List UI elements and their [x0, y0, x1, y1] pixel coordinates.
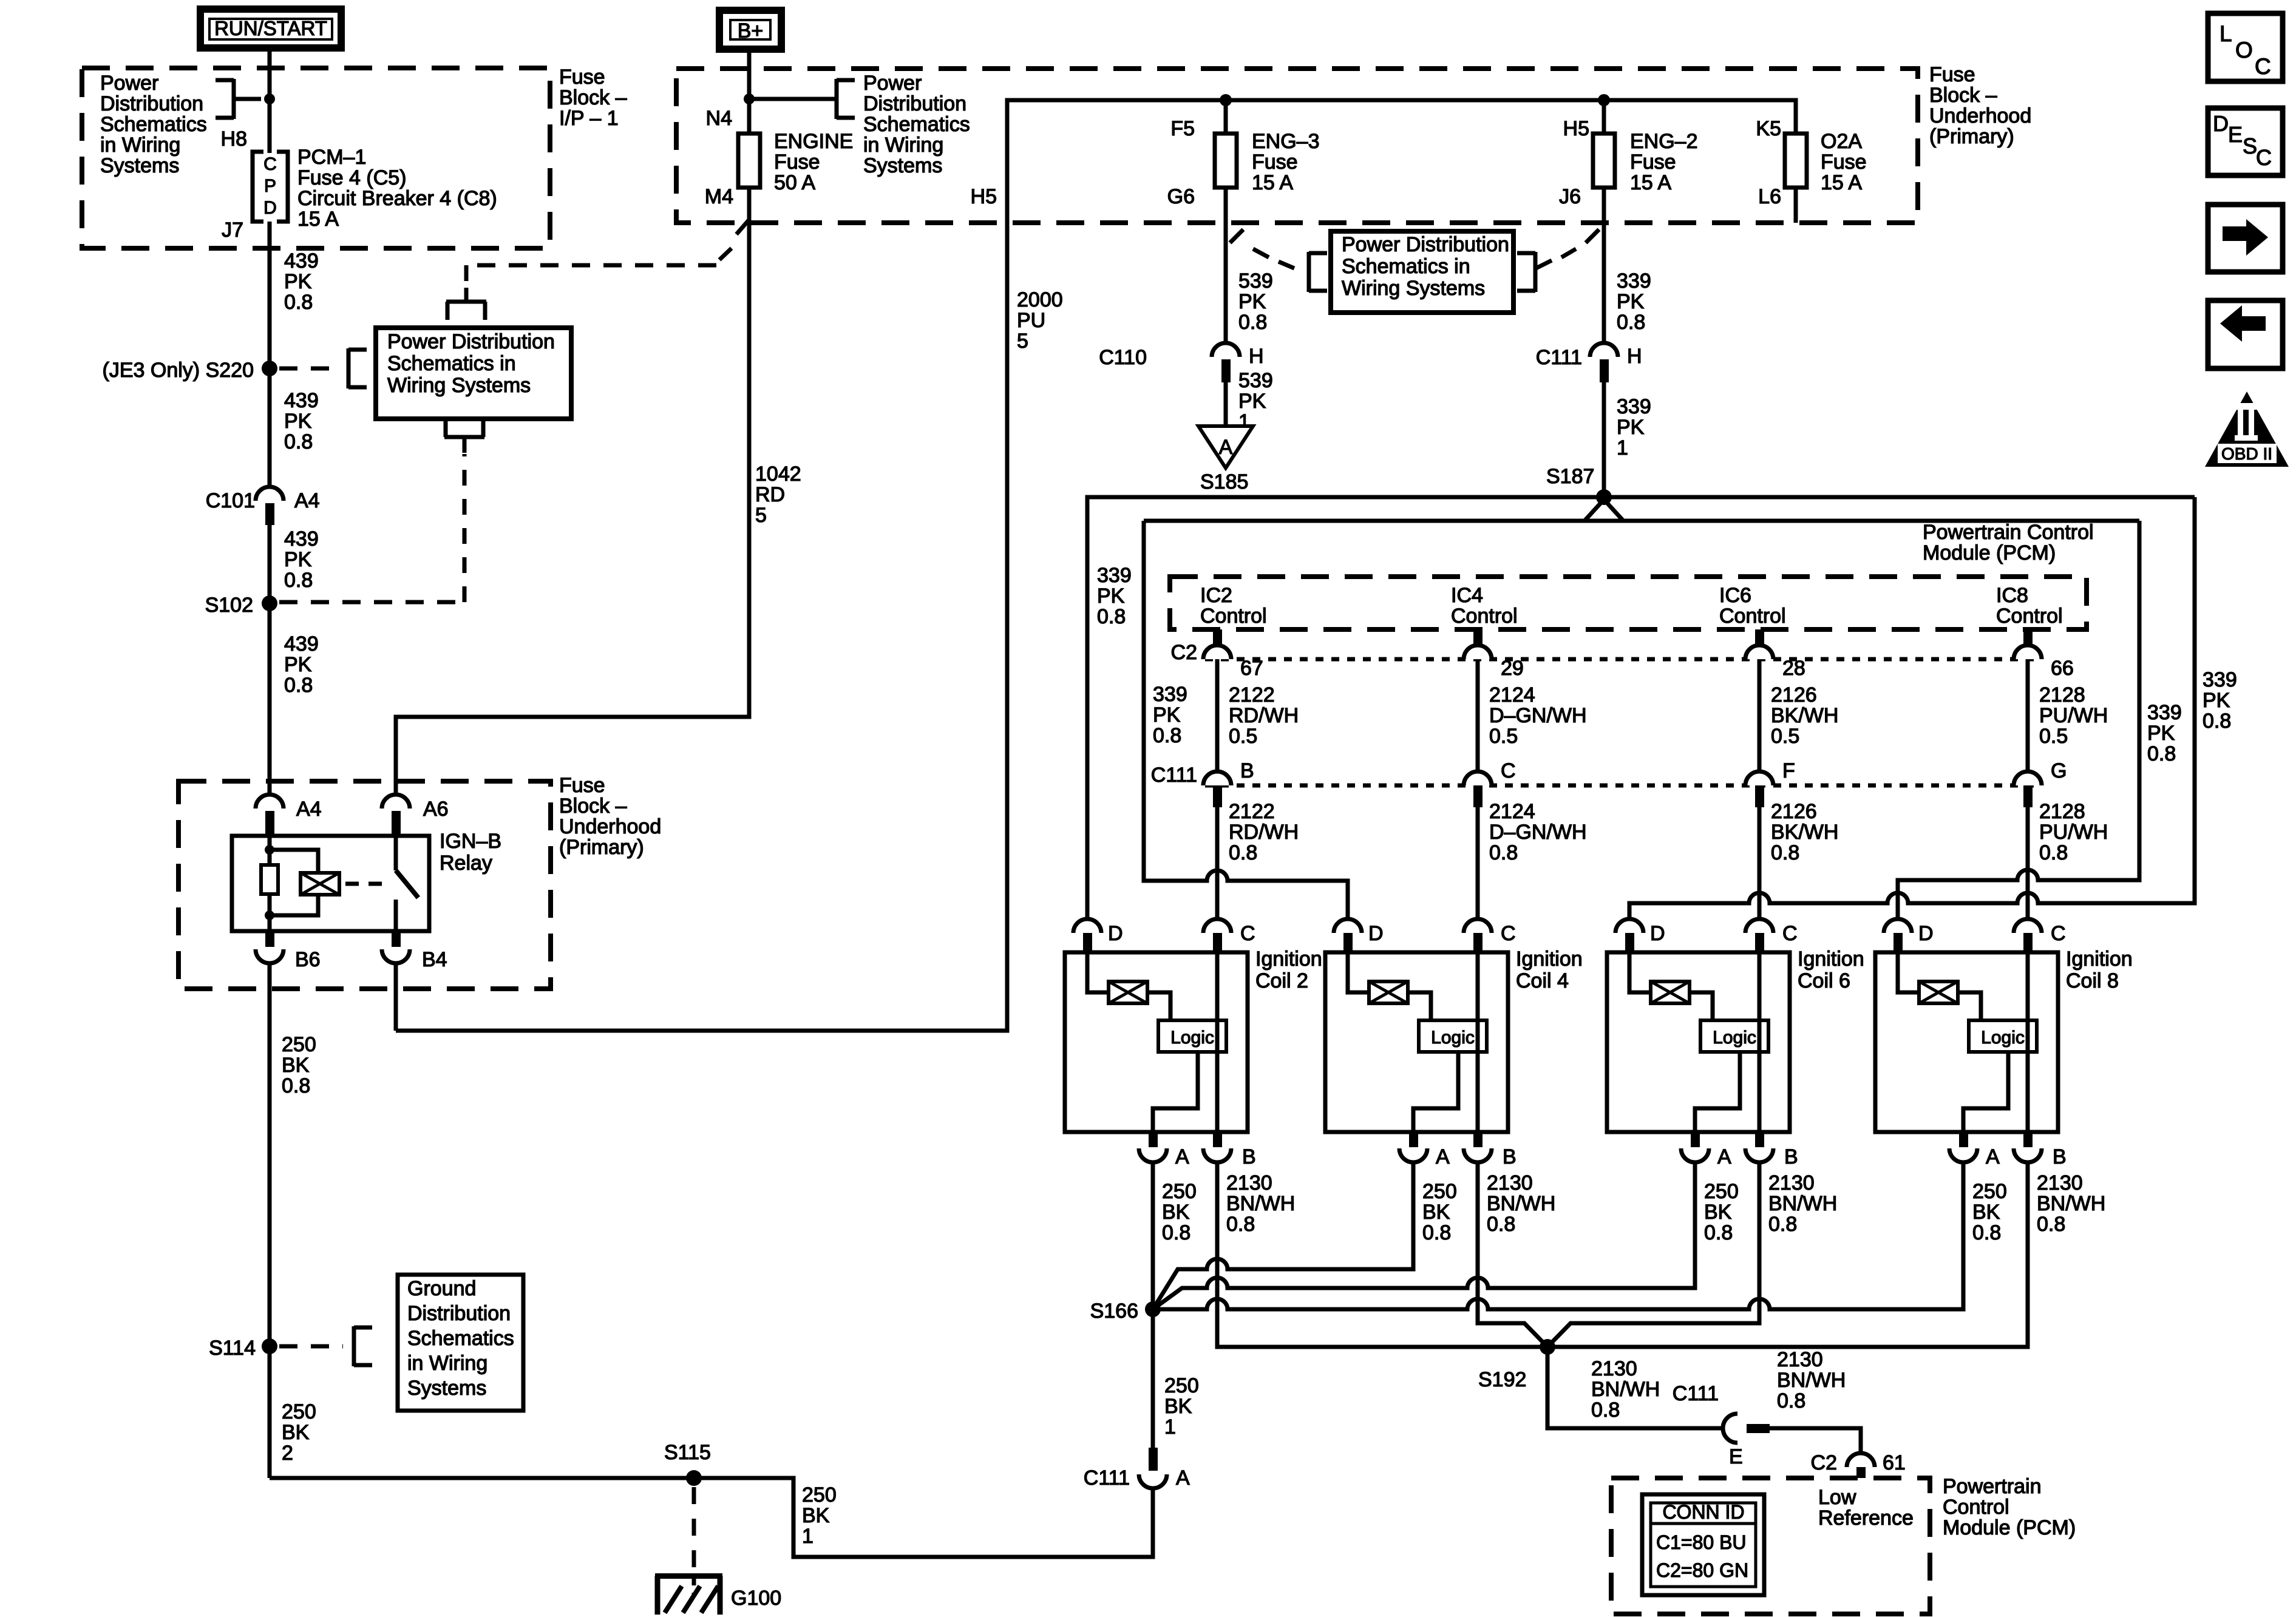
coil 2 internal control wire — [1215, 952, 1220, 1132]
label 2130 BN/WH 0.8 (coil 6) — [1768, 1171, 1837, 1236]
dashed callout S102 up to note box — [279, 419, 484, 602]
svg-text:Ignition: Ignition — [1798, 947, 1864, 971]
svg-text:250: 250 — [802, 1483, 837, 1507]
pin J6 — [1559, 185, 1581, 208]
svg-text:5: 5 — [755, 504, 767, 527]
svg-text:(Primary): (Primary) — [1929, 125, 2014, 148]
svg-text:Control: Control — [1200, 605, 1267, 628]
svg-text:0.8: 0.8 — [284, 430, 313, 453]
coil 2 primary winding symbol — [1087, 952, 1147, 1003]
relay pin B4 — [382, 931, 447, 971]
svg-text:Schematics: Schematics — [863, 113, 970, 136]
label Ignition Coil 8 — [2066, 947, 2133, 992]
svg-text:H5: H5 — [1563, 117, 1589, 140]
label 250 BK 0.8 (coil 4) — [1422, 1180, 1457, 1244]
svg-text:Distribution: Distribution — [863, 92, 966, 115]
svg-text:2128: 2128 — [2039, 800, 2085, 823]
coil 8 pin A — [1949, 1132, 2000, 1168]
svg-text:Ignition: Ignition — [1255, 947, 1322, 971]
fuse O2A 15 A — [1785, 130, 1867, 194]
ignition coil 6 box — [1607, 952, 1790, 1132]
wire 2130 C111 E to C2 61 — [1770, 1428, 1861, 1453]
wire 339 PK fork-right feed to coil 8 D — [1898, 521, 2139, 919]
label Ignition Coil 2 — [1255, 947, 1322, 992]
svg-text:IC8: IC8 — [1996, 584, 2028, 607]
svg-text:2128: 2128 — [2039, 683, 2085, 707]
svg-text:B: B — [1242, 1145, 1256, 1168]
svg-text:BK: BK — [282, 1421, 310, 1444]
svg-text:BK: BK — [1164, 1395, 1192, 1418]
coil 4 pin C — [1464, 919, 1516, 952]
coil 8 pin C — [2014, 919, 2066, 952]
svg-text:BN/WH: BN/WH — [2037, 1192, 2105, 1215]
svg-text:Powertrain: Powertrain — [1943, 1475, 2042, 1498]
label 539 PK 0.8 — [1238, 269, 1273, 334]
svg-text:2126: 2126 — [1771, 683, 1817, 707]
svg-text:BK: BK — [1422, 1201, 1450, 1224]
svg-text:PK: PK — [284, 410, 312, 433]
svg-text:I/P – 1: I/P – 1 — [559, 107, 619, 130]
pin J7 — [222, 219, 243, 242]
dashed callout J6 wire to note box right fork — [1517, 229, 1599, 292]
dashed callout fuse M4 wire to note box top — [446, 220, 749, 320]
label IC4 Control — [1451, 584, 1518, 628]
svg-text:D: D — [263, 198, 277, 218]
PCM label top — [1923, 521, 2094, 564]
coil 8 internal ground wire — [1963, 1052, 2008, 1132]
label 2130 BN/WH 0.8 (coil 8) — [2037, 1171, 2105, 1236]
wire coil2 A down to S166 — [1151, 1162, 1155, 1309]
icon arrow right box — [2208, 205, 2283, 272]
svg-text:O: O — [2235, 38, 2253, 63]
svg-text:0.8: 0.8 — [2203, 710, 2231, 733]
svg-text:0.8: 0.8 — [2037, 1213, 2065, 1236]
svg-text:439: 439 — [284, 389, 319, 412]
circuit breaker CPD symbol — [253, 152, 288, 222]
wire 250 BK 2 S114 down to S115 — [268, 1346, 272, 1478]
label 2130 BN/WH 0.8 (coil 4) — [1487, 1171, 1555, 1236]
svg-text:0.8: 0.8 — [282, 1074, 310, 1097]
svg-text:Coil 4: Coil 4 — [1516, 969, 1569, 992]
svg-text:1042: 1042 — [755, 463, 801, 486]
svg-text:in Wiring: in Wiring — [863, 134, 943, 157]
svg-text:N4: N4 — [706, 107, 732, 130]
svg-text:Systems: Systems — [100, 154, 179, 177]
pin G6 — [1167, 185, 1195, 208]
svg-text:50 A: 50 A — [774, 171, 815, 194]
label 250 BK 1 (S166) — [1164, 1374, 1199, 1439]
svg-text:Low: Low — [1818, 1486, 1856, 1509]
svg-text:A6: A6 — [423, 798, 449, 821]
coil 6 pin C — [1745, 919, 1798, 952]
svg-text:G6: G6 — [1167, 185, 1195, 208]
svg-text:C110: C110 — [1099, 346, 1147, 369]
fuse ENG-3 15 A — [1215, 130, 1320, 194]
svg-text:in Wiring: in Wiring — [100, 134, 180, 157]
svg-text:BN/WH: BN/WH — [1487, 1192, 1555, 1215]
relay coil to switch dashed link — [345, 882, 386, 886]
svg-text:S166: S166 — [1090, 1300, 1138, 1323]
relay switch — [396, 836, 418, 931]
svg-text:2: 2 — [282, 1442, 293, 1465]
coil 8 internal control wire — [2026, 952, 2030, 1132]
coil 6 internal control wire — [1758, 952, 1762, 1132]
svg-text:15 A: 15 A — [1630, 171, 1671, 194]
connector C111 pin G (IC8) — [2014, 759, 2067, 807]
svg-text:Coil 6: Coil 6 — [1798, 969, 1850, 992]
svg-text:PK: PK — [1097, 585, 1125, 608]
label Fuse Block Underhood (Primary) top right — [1929, 63, 2031, 148]
label Low Reference — [1818, 1486, 1914, 1530]
coil 4 logic module — [1408, 992, 1487, 1052]
svg-text:Schematics in: Schematics in — [387, 352, 516, 375]
pin M4 — [705, 185, 733, 208]
svg-text:0.8: 0.8 — [1972, 1221, 2001, 1244]
label 339 PK 0.8 (right edge) — [2203, 668, 2237, 733]
svg-text:PK: PK — [1153, 703, 1181, 727]
connector C2 pin 28 (IC6) — [1745, 629, 1805, 680]
svg-text:E: E — [1729, 1445, 1743, 1468]
junction dot B+ branch — [744, 93, 755, 104]
svg-text:in Wiring: in Wiring — [407, 1352, 487, 1375]
callout fork to note (I/P) — [216, 79, 261, 119]
ignition coil 8 box — [1875, 952, 2058, 1132]
svg-text:Module (PCM): Module (PCM) — [1943, 1516, 2076, 1539]
svg-text:K5: K5 — [1756, 117, 1781, 140]
coil 2 pin D — [1073, 919, 1123, 952]
wire 2122 C2 to C111 — [1215, 659, 1220, 771]
svg-text:S192: S192 — [1478, 1368, 1526, 1391]
svg-text:0.8: 0.8 — [1422, 1221, 1451, 1244]
wire C111 A to S115 — [270, 1478, 1153, 1557]
svg-text:C2: C2 — [1171, 641, 1197, 664]
svg-text:(JE3 Only) S220: (JE3 Only) S220 — [103, 359, 254, 382]
svg-text:BK: BK — [1972, 1201, 2000, 1224]
svg-text:Powertrain Control: Powertrain Control — [1923, 521, 2094, 544]
svg-text:C1=80 BU: C1=80 BU — [1656, 1531, 1747, 1553]
dashed wire S115 to G100 — [692, 1487, 696, 1573]
svg-text:A: A — [1717, 1145, 1731, 1168]
connector C111 pin C (IC4) — [1464, 759, 1516, 807]
svg-text:A: A — [1436, 1145, 1450, 1168]
svg-text:A: A — [1986, 1145, 2000, 1168]
svg-text:BN/WH: BN/WH — [1768, 1192, 1837, 1215]
svg-text:Module (PCM): Module (PCM) — [1923, 541, 2056, 564]
svg-text:PU/WH: PU/WH — [2039, 821, 2108, 844]
label 2124 D–GN/WH 0.5 — [1489, 683, 1587, 748]
svg-text:OBD II: OBD II — [2221, 444, 2272, 463]
wire coil4 B to S192 — [1478, 1162, 1547, 1347]
svg-text:H5: H5 — [971, 185, 997, 208]
svg-text:Control: Control — [1996, 605, 2063, 628]
svg-text:0.8: 0.8 — [284, 569, 313, 592]
label 339 PK 0.8 (coil8 feed) — [2147, 701, 2182, 765]
svg-text:RD: RD — [755, 483, 785, 506]
svg-text:Schematics: Schematics — [100, 113, 207, 136]
svg-text:H8: H8 — [221, 127, 247, 151]
label 2130 BN/WH 0.8 (C111 E) — [1777, 1348, 1846, 1412]
svg-text:ENG–2: ENG–2 — [1630, 130, 1698, 153]
svg-text:PK: PK — [284, 548, 312, 571]
CONN ID table — [1642, 1494, 1764, 1595]
coil 8 pin B — [2014, 1132, 2067, 1168]
svg-text:Logic: Logic — [1981, 1028, 2025, 1048]
svg-text:C2: C2 — [1811, 1451, 1837, 1474]
label 539 PK 1 — [1238, 369, 1273, 433]
wire S166 to coil4 A — [1153, 1162, 1413, 1309]
off-page connector A (S185) — [1198, 426, 1253, 468]
svg-text:(Primary): (Primary) — [559, 836, 644, 859]
connector C2 pin 61 — [1811, 1451, 1906, 1478]
svg-text:339: 339 — [1097, 564, 1132, 587]
wire 439 PK J7 to S220 — [268, 222, 272, 368]
coil 4 primary winding symbol — [1348, 952, 1408, 1003]
fuse block I/P-1 dashed box — [82, 68, 550, 248]
svg-text:0.8: 0.8 — [1162, 1221, 1190, 1244]
svg-text:250: 250 — [1972, 1180, 2007, 1203]
svg-text:S102: S102 — [205, 594, 253, 617]
svg-text:Distribution: Distribution — [407, 1302, 511, 1325]
svg-text:C: C — [2256, 145, 2272, 170]
label 2128 PU/WH 0.8 — [2039, 800, 2108, 864]
svg-text:BK/WH: BK/WH — [1771, 821, 1838, 844]
svg-text:0.8: 0.8 — [1768, 1213, 1797, 1236]
svg-text:A4: A4 — [294, 489, 320, 512]
svg-text:Control: Control — [1451, 605, 1518, 628]
svg-text:J7: J7 — [222, 219, 243, 242]
splice S102 — [205, 594, 277, 617]
wire O2A below fuse — [1794, 188, 1798, 223]
svg-text:0.8: 0.8 — [284, 291, 313, 314]
wire S166 to coil8 A — [1153, 1162, 1963, 1309]
svg-text:D: D — [1108, 922, 1123, 945]
connector C2 pin 29 (IC4) — [1464, 629, 1524, 680]
svg-text:D: D — [1368, 922, 1384, 945]
svg-text:S187: S187 — [1546, 465, 1594, 488]
wire 2122 C111 to coil — [1215, 807, 1220, 919]
svg-text:ENGINE: ENGINE — [774, 130, 853, 153]
coil 4 pin D — [1334, 919, 1384, 952]
svg-text:B6: B6 — [295, 948, 321, 971]
svg-text:Fuse: Fuse — [559, 66, 605, 89]
svg-text:E: E — [2228, 122, 2243, 147]
svg-text:IC6: IC6 — [1719, 584, 1751, 607]
svg-text:S114: S114 — [209, 1337, 256, 1360]
svg-text:2000: 2000 — [1017, 288, 1063, 311]
svg-text:2124: 2124 — [1489, 800, 1535, 823]
svg-text:Fuse: Fuse — [1821, 151, 1867, 174]
svg-text:B4: B4 — [422, 948, 447, 971]
svg-text:BK: BK — [282, 1054, 310, 1077]
note box Power Distribution Schematics in Wiring Systems (fuses) — [1331, 231, 1513, 313]
svg-text:250: 250 — [282, 1033, 316, 1056]
coil 8 primary winding symbol — [1898, 952, 1958, 1003]
svg-text:C111: C111 — [1536, 346, 1582, 369]
svg-text:2122: 2122 — [1229, 800, 1275, 823]
svg-text:PK: PK — [1617, 416, 1645, 439]
pin L6 — [1758, 185, 1781, 208]
wire 2130 S192 down to C111 E — [1547, 1347, 1723, 1428]
splice S220 — [103, 359, 277, 382]
svg-text:S115: S115 — [664, 1441, 711, 1464]
label Ignition Coil 4 — [1516, 947, 1583, 992]
svg-text:Systems: Systems — [863, 154, 942, 177]
svg-text:Underhood: Underhood — [1929, 104, 2031, 127]
svg-text:Coil 2: Coil 2 — [1255, 969, 1308, 992]
svg-text:RD/WH: RD/WH — [1229, 821, 1299, 844]
wire RUN/START down to CPD — [268, 52, 272, 153]
svg-text:28: 28 — [1782, 657, 1805, 680]
svg-text:1: 1 — [1617, 436, 1628, 459]
svg-text:D–GN/WH: D–GN/WH — [1489, 821, 1587, 844]
svg-text:Logic: Logic — [1431, 1028, 1475, 1048]
svg-text:2122: 2122 — [1229, 683, 1275, 707]
svg-text:2130: 2130 — [2037, 1171, 2083, 1195]
icon arrow left box — [2208, 300, 2283, 368]
wire 339 PK fork bus — [1144, 519, 2139, 523]
pin H5 (wire exit) — [971, 185, 997, 208]
svg-text:C: C — [2255, 54, 2271, 79]
svg-text:C: C — [1501, 759, 1516, 782]
power source B+ — [719, 10, 781, 49]
splice S114 — [209, 1337, 277, 1360]
wire coil6 B to S192 — [1547, 1162, 1759, 1347]
svg-text:RD/WH: RD/WH — [1229, 704, 1299, 727]
label 2128 PU/WH 0.5 — [2039, 683, 2108, 748]
svg-text:BN/WH: BN/WH — [1226, 1192, 1295, 1215]
wire 339 PK main bus right — [1604, 495, 2195, 500]
svg-text:Fuse: Fuse — [774, 151, 820, 174]
svg-text:15 A: 15 A — [297, 208, 339, 231]
svg-text:C111: C111 — [1673, 1382, 1719, 1405]
svg-text:Fuse: Fuse — [1252, 151, 1298, 174]
ground G100 — [655, 1573, 781, 1615]
wire 1042 RD fuse M4 down and over to relay A6 — [396, 188, 749, 795]
coil 8 logic module — [1958, 992, 2037, 1052]
svg-text:0.8: 0.8 — [1489, 841, 1518, 864]
label 250 BK 0.8 (coil 8) — [1972, 1180, 2007, 1244]
svg-text:0.5: 0.5 — [1489, 725, 1518, 748]
note Power Distribution Schematics in Wiring Systems (B+) — [863, 72, 970, 177]
svg-text:PK: PK — [1238, 290, 1266, 313]
svg-text:15 A: 15 A — [1821, 171, 1862, 194]
splice S115 — [664, 1441, 711, 1486]
label 2122 RD/WH 0.8 — [1229, 800, 1299, 864]
label C111 — [1151, 764, 1197, 787]
svg-text:0.8: 0.8 — [1704, 1221, 1733, 1244]
junction dot H8 branch — [264, 93, 275, 104]
svg-text:Fuse: Fuse — [559, 774, 605, 797]
label IC2 Control — [1200, 584, 1267, 628]
coil 2 pin C — [1203, 919, 1255, 952]
svg-text:Block –: Block – — [1929, 84, 1997, 107]
svg-text:250: 250 — [1422, 1180, 1457, 1203]
label 1042 RD 5 — [755, 463, 801, 527]
coil 6 pin A — [1681, 1132, 1731, 1168]
coil 2 internal ground wire — [1153, 1052, 1198, 1132]
svg-text:D: D — [1650, 922, 1665, 945]
fuse ENG-2 15 A — [1593, 130, 1698, 194]
label Fuse Block I/P-1 — [559, 66, 627, 130]
svg-text:0.8: 0.8 — [1487, 1213, 1515, 1236]
coil 2 pin A — [1139, 1132, 1189, 1168]
svg-text:RUN/START: RUN/START — [214, 17, 327, 39]
svg-text:0.8: 0.8 — [2039, 841, 2068, 864]
svg-text:339: 339 — [1617, 395, 1651, 418]
svg-text:Distribution: Distribution — [100, 92, 203, 115]
svg-text:0.8: 0.8 — [1771, 841, 1799, 864]
svg-text:2130: 2130 — [1487, 1171, 1533, 1195]
wire 539 PK C110 to S185 — [1224, 382, 1228, 426]
svg-text:250: 250 — [1162, 1180, 1197, 1203]
svg-text:Fuse: Fuse — [1929, 63, 1975, 86]
wire coil2 B down and across to coil8 B (through S192) — [1217, 1162, 2028, 1347]
svg-text:ENG–3: ENG–3 — [1252, 130, 1320, 153]
splice S192 — [1478, 1339, 1555, 1391]
svg-text:66: 66 — [2051, 657, 2074, 680]
icon DESC box — [2208, 108, 2283, 175]
svg-text:B: B — [2053, 1145, 2067, 1168]
svg-text:PU: PU — [1017, 309, 1045, 332]
svg-text:2126: 2126 — [1771, 800, 1817, 823]
wire bus ENG-3/ENG-2/O2A feed (from relay B4) — [396, 100, 1796, 1031]
label 250 BK 0.8 (coil 6) — [1704, 1180, 1739, 1244]
wire 2124 C111 to coil — [1476, 807, 1480, 919]
label IGN-B Relay — [440, 830, 501, 875]
svg-text:439: 439 — [284, 249, 319, 273]
svg-text:Fuse 4 (C5): Fuse 4 (C5) — [297, 166, 407, 189]
fuse ENGINE 50 A — [738, 130, 853, 194]
connector C111 pin A — [1084, 1448, 1190, 1490]
label PCM-1 Fuse 4 (C5) Circuit Breaker 4 (C8) 15 A — [297, 146, 497, 231]
coil 6 pin D — [1615, 919, 1665, 952]
svg-text:B: B — [1784, 1145, 1798, 1168]
svg-text:C111: C111 — [1084, 1466, 1130, 1490]
dashed callout S220 to note box — [279, 348, 367, 388]
coil 2 logic module — [1147, 992, 1226, 1052]
svg-text:539: 539 — [1238, 269, 1273, 293]
label 2126 BK/WH 0.5 — [1771, 683, 1838, 748]
svg-text:PK: PK — [284, 653, 312, 676]
label 2000 PU 5 — [1017, 288, 1063, 353]
svg-text:0.8: 0.8 — [2147, 742, 2176, 765]
relay pin A4 — [256, 795, 322, 836]
ignition coil 4 box — [1325, 952, 1508, 1132]
svg-text:D–GN/WH: D–GN/WH — [1489, 704, 1587, 727]
svg-text:P: P — [264, 176, 276, 196]
connector C2 pin 66 (IC8) — [2014, 629, 2074, 680]
label IC6 Control — [1719, 584, 1786, 628]
svg-text:Control: Control — [1943, 1496, 2009, 1519]
svg-text:PK: PK — [284, 270, 312, 293]
wire 339 PK main bus left to coil 2 D — [1087, 497, 1604, 919]
wire 339 PK J6 down to C111 — [1602, 188, 1606, 343]
pin F5 — [1170, 117, 1195, 140]
svg-text:C2=80 GN: C2=80 GN — [1656, 1559, 1748, 1581]
label 2126 BK/WH 0.8 — [1771, 800, 1838, 864]
relay pin A6 — [382, 795, 449, 836]
svg-text:PU/WH: PU/WH — [2039, 704, 2108, 727]
svg-text:Relay: Relay — [440, 852, 492, 875]
wire 2128 C2 to C111 — [2026, 659, 2030, 771]
relay coil winding symbol — [270, 850, 339, 915]
coil 4 internal ground wire — [1413, 1052, 1458, 1132]
svg-text:Reference: Reference — [1818, 1507, 1914, 1530]
PCM dashed box — [1170, 577, 2087, 629]
wire 539 PK G6 down to C110 — [1224, 188, 1228, 343]
svg-text:2130: 2130 — [1768, 1171, 1815, 1195]
svg-text:2130: 2130 — [1591, 1357, 1637, 1380]
